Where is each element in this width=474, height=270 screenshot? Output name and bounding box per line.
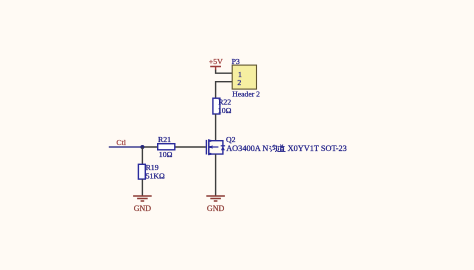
label R19 <box>146 163 159 172</box>
svg-text:Header 2: Header 2 <box>232 90 260 99</box>
svg-text:+5V: +5V <box>209 57 223 66</box>
label Q2 <box>226 135 236 144</box>
value 10Ω of R22 <box>218 106 232 115</box>
value 10Ω of R21 <box>159 150 173 159</box>
label P3 <box>232 57 240 66</box>
svg-text:Ctl: Ctl <box>116 138 126 147</box>
pin 2 of P3 <box>237 78 241 87</box>
wire R22 to drain of Q2 <box>215 114 217 140</box>
comment Header 2 of P3 <box>232 90 260 99</box>
power +5V <box>209 57 223 70</box>
wire junction down to R19 <box>141 147 143 165</box>
resistor R22 <box>213 98 220 114</box>
value AO3400A N沟道 X0YV1T SOT-23 of Q2 <box>226 144 347 153</box>
svg-text:AO3400A N: AO3400A N <box>226 144 268 153</box>
wire Ctl net horizontal segment <box>109 146 143 148</box>
svg-text:R21: R21 <box>158 135 171 144</box>
junction node at Ctl/R19/R21 <box>140 145 144 149</box>
pin 1 of P3 <box>238 70 242 79</box>
wire +5V to header pin 1 <box>216 70 233 73</box>
resistor R19 <box>138 164 145 179</box>
svg-text:10Ω: 10Ω <box>218 106 232 115</box>
svg-text:10Ω: 10Ω <box>159 150 173 159</box>
svg-text:Q2: Q2 <box>226 135 236 144</box>
svg-text:2: 2 <box>237 78 241 87</box>
wire header pin 2 down to R22 <box>216 82 233 99</box>
svg-text:51KΩ: 51KΩ <box>146 172 165 181</box>
wire R19 to ground <box>141 179 143 196</box>
svg-text:X0YV1T SOT-23: X0YV1T SOT-23 <box>288 144 347 153</box>
wire source of Q2 to ground <box>215 154 217 196</box>
ground GND 1 <box>133 196 152 213</box>
resistor R21 <box>158 144 175 150</box>
svg-text:P3: P3 <box>232 57 240 66</box>
net label Ctl <box>116 138 126 147</box>
value 51KΩ of R19 <box>146 172 165 181</box>
label R21 <box>158 135 171 144</box>
label R22 <box>218 98 231 107</box>
connector P3 body <box>232 65 256 89</box>
svg-text:GND: GND <box>134 204 152 213</box>
transistor Q2 MOSFET N-channel <box>206 139 225 155</box>
ground GND 2 <box>206 196 225 213</box>
svg-text:GND: GND <box>207 204 225 213</box>
wire junction to gate of Q2 <box>142 146 206 148</box>
